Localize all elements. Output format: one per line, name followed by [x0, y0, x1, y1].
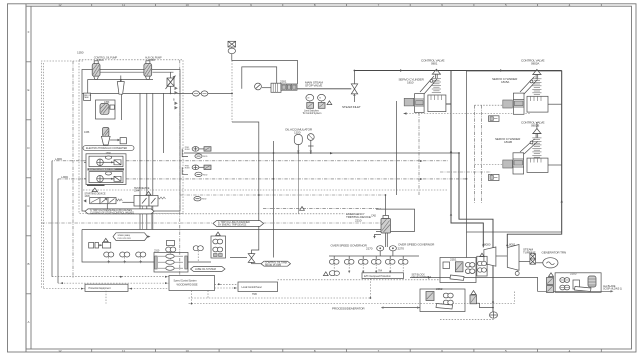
magnetic pickup MP2 — [120, 252, 130, 264]
wire dash-dot governor line y=171.8 — [440, 171, 491, 173]
svg-text:BY EMERG. TRIP DEVICE: BY EMERG. TRIP DEVICE — [218, 223, 247, 227]
wire steam downcomer x=561.7 — [507, 71, 561, 248]
svg-text:10: 10 — [186, 349, 190, 353]
oil accumulator 1320 — [285, 128, 314, 154]
steam chest CV1 — [428, 95, 446, 112]
limit switch LS1 — [306, 94, 314, 108]
magnetic pickup MP3 — [136, 252, 146, 264]
svg-text:Speed Control System: Speed Control System — [174, 279, 197, 283]
wire dash-dot vertical x=73 — [72, 61, 74, 278]
wire dashed servo 2A pilot — [475, 104, 508, 106]
generator G1 — [536, 258, 558, 268]
speed sensor S6 — [398, 256, 408, 276]
turbine drain to condenser circle — [490, 306, 498, 318]
test valve stack top — [228, 41, 236, 53]
svg-text:1350: 1350 — [77, 51, 84, 55]
svg-text:1336: 1336 — [84, 130, 90, 134]
wire dashed control buses — [52, 276, 169, 278]
wire drain line to governor y=257.5 — [230, 257, 247, 259]
port arrows unit outlet A — [173, 83, 178, 95]
linkage CV2A — [520, 77, 538, 95]
svg-text:2210: 2210 — [355, 218, 362, 222]
servo cylinder body CV2A — [513, 93, 524, 114]
speed probe rack box — [477, 253, 487, 276]
wire cooler down — [163, 93, 165, 153]
fitting branch bracket B — [182, 167, 188, 174]
speed sensor S2 — [344, 256, 354, 273]
wire extraction line arrow — [428, 276, 431, 278]
fitting branch bracket A — [182, 149, 188, 157]
wire bottom system line y=229.5 — [82, 229, 387, 231]
wire dash-dot vertical x=179.8 — [179, 60, 181, 275]
svg-text:A: A — [27, 320, 29, 324]
wire pilot supply from unit y=93.5 — [180, 93, 232, 95]
svg-text:TANK: TANK — [84, 96, 89, 99]
wire servo CV1 dashed pilot — [396, 101, 398, 195]
turning gear block 2310 — [154, 249, 188, 273]
gauge row 4 — [195, 172, 208, 176]
svg-text:1351B: 1351B — [148, 58, 155, 62]
wire stop valve pilot feed — [232, 54, 298, 84]
steam chest CV2A — [527, 96, 548, 112]
steam inlet arrow below stop valve — [353, 94, 355, 102]
wire steam header y=70.5 — [354, 70, 561, 72]
border grid reference numbers and ticks — [58, 3, 570, 353]
svg-text:12: 12 — [58, 349, 62, 353]
svg-text:LUBE OIL SYSTEM: LUBE OIL SYSTEM — [195, 267, 216, 271]
wire funnel drop pipe — [121, 94, 123, 120]
protection equipment box — [85, 284, 128, 291]
wire speed sensor bus y=254.9 — [329, 255, 419, 257]
wire extraction line y=277.5 — [410, 278, 611, 292]
HP turbine 8000 — [484, 243, 496, 267]
purifier funnel F2 — [101, 136, 120, 145]
limit switch LS2 — [318, 94, 326, 108]
svg-text:E: E — [27, 88, 29, 92]
steam seal unit box 2352 — [420, 287, 465, 312]
wire steam to stop valve — [353, 71, 355, 85]
magnetic pickup MP5 — [193, 246, 203, 262]
wire pump discharge header y=72.2 — [100, 71, 144, 73]
speed pickup banner — [113, 233, 151, 241]
svg-text:Protection Equipment: Protection Equipment — [89, 286, 111, 290]
flow arrows on mains — [330, 69, 563, 302]
wire dash-dot pilot vertical x=474.5 — [474, 105, 476, 203]
wire accumulator drain to trip header — [297, 153, 299, 214]
svg-text:ELECTRO-HYDRAULIC CONVERTER: ELECTRO-HYDRAULIC CONVERTER — [86, 146, 127, 150]
svg-text:ROM: ROM — [185, 168, 190, 170]
coupling gearbox — [530, 254, 536, 264]
wire manifold to stop valve — [297, 88, 351, 90]
converter bottom label bar — [87, 184, 105, 186]
magnetic pickup MP4 — [166, 241, 176, 264]
wire internal header y=93.4 — [82, 92, 180, 94]
warning triangle sensors — [323, 272, 328, 276]
svg-text:11: 11 — [122, 3, 125, 7]
svg-text:12: 12 — [58, 3, 62, 7]
overspeed governor bolt right — [389, 246, 396, 256]
svg-text:To Control System: To Control System — [303, 111, 322, 115]
gauge row 5 — [194, 197, 207, 201]
svg-text:STEAM INLET: STEAM INLET — [342, 105, 361, 109]
solenoid directional valve SV1 — [84, 188, 135, 211]
tripping oil banner hexagon — [213, 220, 264, 227]
svg-text:10: 10 — [186, 3, 190, 7]
LP turbine 8001 — [507, 243, 519, 271]
svg-text:1353: 1353 — [104, 100, 110, 104]
shaft HP-LP — [496, 255, 507, 257]
svg-text:CAD: CAD — [371, 214, 376, 218]
svg-text:ROM: ROM — [185, 149, 190, 151]
svg-text:1811B: 1811B — [504, 140, 512, 144]
speed pickup enclosure left and bottom — [82, 230, 154, 263]
wire dash-dot trip feed y=195 — [180, 194, 385, 196]
svg-text:2353: 2353 — [570, 271, 577, 275]
wire dash-dot trip oil line y=223 — [42, 222, 216, 224]
svg-text:ELECTRO HYDRAULIC CONV: ELECTRO HYDRAULIC CONV — [89, 168, 116, 171]
warning triangle near limit switches — [327, 101, 332, 105]
condenser note banner — [85, 208, 154, 214]
svg-text:2351: 2351 — [450, 258, 457, 262]
speed control system box — [169, 276, 215, 291]
pilot valve attachment CV1 — [404, 98, 414, 106]
oil pump P1 with motor — [92, 56, 117, 80]
gauge pair row 3 — [192, 165, 211, 170]
svg-text:2310: 2310 — [154, 249, 160, 253]
wire manifold bypass loop — [242, 67, 277, 89]
emergency tripping device 2210 — [346, 212, 391, 239]
svg-text:8000: 8000 — [484, 243, 491, 247]
red oil tank label box — [84, 93, 93, 100]
svg-text:WOODWARD 505E: WOODWARD 505E — [177, 283, 198, 287]
wire valve stack drop x=232 dashed — [231, 60, 233, 122]
union fitting pair on pilot line — [193, 91, 208, 96]
overspeed governor bolt left — [377, 246, 384, 256]
pilot valve attachment CV2B — [503, 160, 513, 168]
linkage CV1 — [420, 76, 437, 94]
key phasor probe — [329, 271, 339, 276]
fitting box pilot B — [489, 175, 500, 181]
svg-text:0801: 0801 — [431, 62, 438, 66]
svg-text:1810: 1810 — [407, 80, 414, 84]
svg-text:E/H Overspeed Protection: E/H Overspeed Protection — [364, 274, 391, 278]
wire gland drain into condenser box — [466, 232, 468, 258]
left binding strip line — [30, 6, 32, 349]
label process deaerator — [332, 306, 420, 310]
solenoid directional valve SV2 — [134, 186, 166, 206]
trip throttle valve — [248, 254, 255, 263]
svg-text:1344: 1344 — [134, 188, 140, 192]
control oil block 1350 dashed enclosure — [79, 60, 183, 214]
drain banner hexagon — [252, 260, 291, 266]
oil unit inner box — [82, 70, 180, 212]
wire oil drain to HP turbine gland x=459 — [459, 153, 493, 312]
gland condenser box 2351 — [440, 258, 476, 283]
wire speed control to turbine dashed — [191, 297, 193, 299]
svg-text:CLOSING OF STOP+CONTROL VALVES: CLOSING OF STOP+CONTROL VALVES — [90, 211, 134, 215]
svg-text:2270: 2270 — [398, 246, 405, 250]
wire dashed boundary second — [42, 63, 44, 289]
wire pump suction header y=79.4 — [88, 78, 153, 80]
fitting box governor line — [491, 174, 493, 176]
svg-text:1320: 1320 — [294, 131, 301, 135]
electro-hydraulic converter banner — [83, 146, 134, 151]
lube oil banner hexagon — [191, 267, 226, 272]
gland steam valve with triangle 2352 right — [470, 291, 493, 308]
manual handle for 2301 — [255, 83, 271, 90]
wire accumulator drain x=273.5 — [273, 141, 275, 258]
svg-text:OVER SPEED GOVERNOR: OVER SPEED GOVERNOR — [331, 244, 368, 248]
speed sensor S1 — [329, 256, 339, 276]
svg-text:1815A: 1815A — [501, 80, 510, 84]
svg-text:SPEED (MAG): SPEED (MAG) — [118, 234, 131, 237]
oil heater box — [120, 138, 126, 144]
svg-text:ROD: ROD — [203, 174, 208, 176]
relief valve RV1 — [166, 72, 176, 93]
linkage CV2B — [520, 139, 538, 154]
svg-text:F: F — [28, 30, 30, 34]
cooler funnel F1 — [117, 76, 124, 95]
oil purifier cylinder — [103, 128, 109, 137]
svg-text:L-MPA: L-MPA — [61, 175, 68, 179]
svg-text:TNB: TNB — [252, 292, 257, 296]
gauge pair row 1 — [192, 147, 211, 152]
svg-text:ROD: ROD — [202, 199, 207, 201]
servo cylinder body CV2B — [513, 153, 524, 174]
turbine gland drain valve — [515, 270, 519, 275]
svg-text:DRAIN 45 OPR: DRAIN 45 OPR — [265, 263, 282, 267]
wire drain header y=178.9 — [58, 178, 86, 180]
MPU terminal boxes — [89, 238, 111, 248]
pilot valve attachment CV2A — [503, 100, 513, 108]
wire SV2 drain lines — [142, 206, 144, 230]
svg-text:ROD: ROD — [203, 156, 208, 158]
wire tripping device twin drop lines — [384, 233, 386, 247]
control valve CV2A 0802A — [521, 59, 545, 95]
system boundary dashed left — [41, 61, 83, 289]
tripping device enclosure — [376, 209, 415, 231]
fitting box pilot A — [489, 116, 500, 122]
oil filter FL1 assembly box — [96, 100, 116, 119]
magnetic pickup MP1 — [104, 252, 114, 264]
stop valve pilot manifold 2301 — [271, 80, 297, 93]
svg-text:STOP VALVE: STOP VALVE — [305, 84, 322, 88]
control valve CV1 0801 — [421, 59, 445, 93]
wire trip oil drop to trip valve — [232, 122, 259, 254]
speed sensor S5 — [385, 256, 395, 273]
svg-text:SC/SP (4L2/4(5 1): SC/SP (4L2/4(5 1) — [603, 287, 622, 291]
svg-text:Local Control Panel: Local Control Panel — [242, 285, 263, 289]
control valve CV2B 0802B — [521, 121, 545, 158]
servo cylinder body CV1 — [415, 94, 425, 113]
shaft LP-coupling — [519, 261, 530, 263]
electro-hydraulic converter unit 1360 — [84, 154, 126, 185]
oil pump P2 with motor — [144, 56, 162, 80]
overspeed protection banner box — [362, 273, 404, 279]
svg-text:PICK UPS 2311: PICK UPS 2311 — [118, 238, 132, 240]
svg-text:1360: 1360 — [106, 151, 112, 155]
svg-text:11: 11 — [122, 349, 125, 353]
svg-text:B: B — [27, 262, 29, 266]
wire oil supply header y=153 — [184, 152, 459, 154]
svg-text:2170: 2170 — [366, 247, 373, 251]
speed sensor S3 — [358, 256, 368, 273]
svg-text:GENERATOR TRN: GENERATOR TRN — [542, 251, 567, 255]
wire dashed control line y=190 — [83, 189, 448, 191]
wire CV2A steam line to header drop — [548, 103, 562, 105]
exhaust system box 2353 — [547, 271, 602, 292]
wire CV1 steam drop — [446, 103, 451, 105]
speed sensor S4 — [371, 256, 381, 273]
steam chest CV2B — [527, 158, 548, 172]
wire CV2B steam line — [548, 164, 562, 166]
gauge row 2 — [195, 154, 208, 158]
svg-text:L-MPA: L-MPA — [55, 157, 62, 161]
right extraction valve enclosure box — [467, 71, 562, 232]
wire signal line y=160.8 with elbow — [52, 160, 86, 162]
wire mid verticals in oil unit — [139, 93, 141, 229]
wire dash-dot line y=208.4 — [263, 207, 381, 209]
port arrows unit outlet B — [173, 98, 178, 110]
main steam stop valve body (gate) — [351, 84, 357, 94]
wire signal line y=178.9 with elbow — [57, 179, 59, 283]
svg-text:0802B: 0802B — [531, 124, 539, 128]
svg-text:PROCESS/DEAERATOR: PROCESS/DEAERATOR — [332, 307, 365, 311]
svg-text:1351A: 1351A — [97, 58, 104, 62]
junction box speed probes — [211, 232, 226, 258]
wire dashed links below boxes — [105, 291, 107, 304]
local control panel box — [238, 282, 278, 296]
warning triangle governor area — [300, 207, 305, 211]
wire dashed pilot line y=213.8 — [104, 213, 345, 215]
wire dashed servo 2B pilot — [475, 164, 508, 166]
svg-text:0802A: 0802A — [531, 62, 540, 66]
